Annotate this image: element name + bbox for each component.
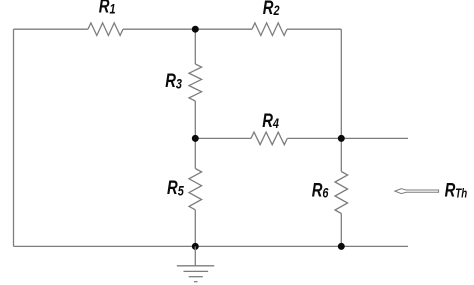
wire top-left segment [14, 28, 89, 30]
node D junction dot [192, 243, 199, 250]
resistor R6 [335, 172, 348, 214]
resistor R5 [189, 169, 202, 210]
ground [177, 246, 214, 281]
node B junction dot [338, 135, 345, 142]
wire right vertical upper [340, 29, 342, 138]
wire node C to R4 [195, 137, 251, 139]
node E junction dot [338, 243, 345, 250]
arrow RTh pointer [395, 189, 439, 194]
resistor R2 [252, 23, 287, 36]
svg-text:R4: R4 [262, 110, 279, 131]
resistor R1 [88, 23, 123, 36]
wire top-right segment [287, 28, 341, 30]
label R5 [167, 177, 185, 198]
wire terminal top [341, 137, 408, 139]
wire node A to R3 [194, 29, 196, 64]
svg-text:R2: R2 [263, 0, 280, 19]
wire node C to R5 [194, 138, 196, 168]
wire R5 to node D [194, 210, 196, 247]
label R3 [165, 70, 182, 91]
svg-text:R3: R3 [165, 70, 182, 91]
wire top-middle segment [123, 28, 252, 30]
wire left vertical [13, 29, 15, 246]
label RTh [445, 180, 468, 201]
wire bottom [14, 245, 409, 247]
label R1 [99, 0, 116, 17]
resistor R4 [251, 132, 287, 145]
resistor R3 [189, 64, 202, 101]
svg-text:R6: R6 [312, 180, 330, 201]
wire node B to R6 [340, 138, 342, 171]
label R6 [312, 180, 330, 201]
svg-text:R1: R1 [99, 0, 116, 17]
svg-text:R5: R5 [167, 177, 185, 198]
wire R6 to node E [340, 214, 342, 247]
label R4 [262, 110, 279, 131]
label R2 [263, 0, 280, 19]
wire R4 to node B [287, 137, 341, 139]
node A junction dot [192, 26, 199, 33]
wire R3 to node C [194, 101, 196, 138]
svg-text:RTh: RTh [445, 180, 468, 201]
node C junction dot [192, 135, 199, 142]
